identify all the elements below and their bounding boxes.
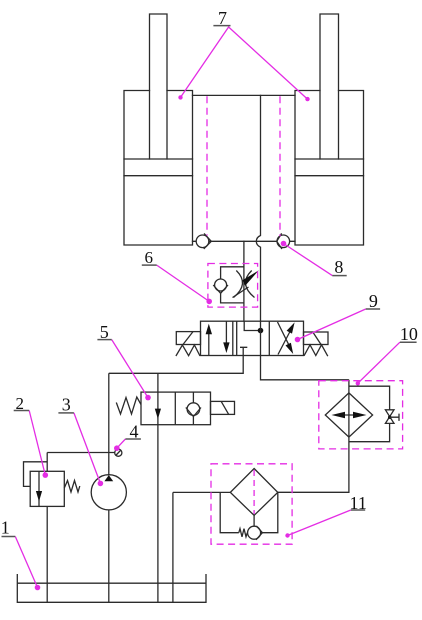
wire A-line from blind-end line down through throttle to valve bbox=[243, 241, 245, 321]
wire rod-end line between cylinders bbox=[193, 94, 296, 96]
valve 5 spring bbox=[116, 397, 141, 414]
pilot dashed line left bbox=[206, 96, 208, 235]
leader 5 bbox=[112, 340, 148, 398]
wire filter 11 left line bbox=[173, 491, 230, 493]
junction dot bbox=[258, 328, 264, 334]
dashed box filter 11 bbox=[211, 464, 292, 544]
wire bypass loop of assembly 6 bbox=[221, 267, 244, 303]
pilot dashed line right bbox=[279, 96, 281, 236]
valve 9 left square down arrow bbox=[225, 321, 227, 346]
cylinder 7 left barrel bbox=[124, 91, 193, 246]
valve 5 solenoid bbox=[211, 401, 235, 414]
cylinder 7 right piston bbox=[295, 159, 364, 176]
shut-off valve in 10 bbox=[385, 410, 394, 424]
wire pump riser bbox=[108, 373, 110, 474]
relief valve 2 body bbox=[30, 471, 64, 506]
leader dots bbox=[35, 585, 41, 591]
filter 11 bypass bbox=[220, 492, 278, 532]
leader 3 bbox=[74, 413, 101, 484]
dashed box assembly 6 bbox=[208, 264, 258, 308]
wire gauge line bbox=[47, 452, 115, 454]
leader 4 bbox=[117, 439, 126, 448]
relief valve 2 spring bbox=[64, 481, 80, 493]
wire T line valve to cooler 10 bbox=[261, 356, 349, 380]
dashed box cooler 10 bbox=[319, 381, 403, 449]
wire unloading branch to valve 5 bbox=[157, 373, 159, 392]
wire filter return to tank bbox=[172, 492, 174, 602]
valve 9 centre square A bend bbox=[244, 321, 260, 330]
cooler 10 main line bbox=[278, 380, 349, 493]
spring left bbox=[176, 345, 200, 356]
wire B/T through line inside valve bbox=[260, 321, 262, 355]
svg-text:9: 9 bbox=[369, 291, 378, 311]
relief valve 2 flow arrow bbox=[38, 471, 40, 506]
filter 11 element dashed line bbox=[253, 470, 255, 514]
cooler 10 bypass bbox=[349, 386, 390, 442]
valve 9 right square crossed arrows bbox=[278, 322, 291, 355]
valve 5 body bbox=[141, 392, 211, 425]
tank 1 bbox=[17, 574, 206, 602]
svg-text:6: 6 bbox=[144, 248, 153, 267]
cooler 10 arrows bbox=[336, 414, 362, 416]
throttle valve arcs bbox=[234, 271, 255, 298]
wire pump suction bbox=[108, 510, 110, 602]
cylinder 7 left piston bbox=[124, 159, 193, 176]
leader 6 bbox=[157, 265, 210, 301]
relief valve 2 pilot line bbox=[24, 462, 48, 487]
leader 7 (two branches) bbox=[181, 27, 308, 99]
directional valve 9 body bbox=[176, 321, 328, 356]
wire blind-end line between cylinders bbox=[193, 240, 296, 242]
solenoid right bbox=[304, 332, 329, 345]
filter 11 diamond bbox=[230, 469, 277, 516]
leader 2 bbox=[29, 411, 45, 476]
svg-text:7: 7 bbox=[218, 8, 227, 28]
tank fluid line bbox=[17, 582, 206, 584]
cooler 10 diamond bbox=[325, 393, 372, 437]
svg-text:1: 1 bbox=[1, 518, 10, 538]
throttle/check assembly 6 internals bbox=[213, 267, 259, 303]
valve 9 centre square blocked P port bbox=[240, 347, 247, 355]
svg-text:3: 3 bbox=[62, 395, 71, 415]
check valve 8 (right, at cylinder) bbox=[277, 235, 290, 248]
wire valve 5 drain to tank bbox=[157, 425, 159, 603]
pump 3 bbox=[91, 475, 126, 510]
filter 11 check valve bbox=[248, 526, 261, 539]
leader 11 bbox=[288, 510, 351, 536]
wire B-line from rod-end line down to valve (with crossing hop) bbox=[256, 95, 260, 321]
leader 10 bbox=[358, 342, 400, 383]
cylinder 7 right barrel bbox=[295, 91, 364, 246]
valve 5 flow arrow bbox=[157, 392, 159, 425]
valve 9 left square up arrow bbox=[208, 329, 210, 356]
solenoid left bbox=[176, 332, 200, 345]
wire relief valve drain bbox=[46, 506, 48, 602]
label underlines bbox=[2, 536, 16, 538]
wire P line valve to pump riser bbox=[109, 356, 243, 374]
svg-text:8: 8 bbox=[334, 257, 343, 277]
valve 5 check position bbox=[192, 392, 194, 425]
filter 11 bypass spring bbox=[239, 529, 248, 537]
leader 9 bbox=[298, 309, 366, 340]
check valve (left, at cylinder) bbox=[196, 235, 209, 248]
leader 1 bbox=[15, 537, 37, 588]
cylinder 7 right rod bbox=[320, 14, 339, 159]
relief valve 2 drop bbox=[46, 453, 48, 472]
cylinder 7 left rod bbox=[150, 14, 168, 159]
svg-text:10: 10 bbox=[400, 324, 418, 344]
pressure point 4 bbox=[115, 449, 122, 456]
leader 8 bbox=[284, 244, 333, 276]
throttle adjust arrow bbox=[233, 287, 249, 298]
check valve in assembly 6 bbox=[215, 279, 227, 291]
svg-text:5: 5 bbox=[100, 322, 109, 342]
spring right bbox=[304, 345, 328, 356]
